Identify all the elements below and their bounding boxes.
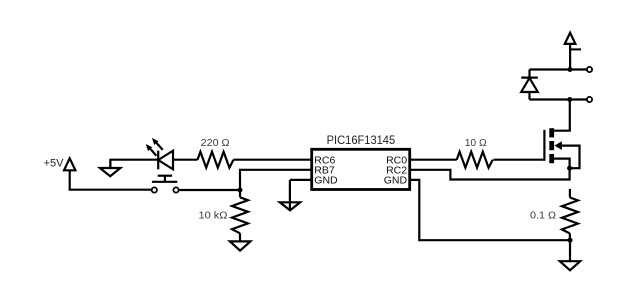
junction row1 bbox=[568, 67, 573, 72]
svg-text:+5V: +5V bbox=[44, 158, 65, 170]
ground below 10k bbox=[230, 241, 251, 250]
wire LED to R1 bbox=[173, 159, 198, 161]
ground below R4 bbox=[560, 240, 580, 270]
terminal row1 bbox=[587, 67, 592, 72]
svg-text:0.1 Ω: 0.1 Ω bbox=[530, 210, 556, 222]
resistor R1 220 Ohm bbox=[198, 137, 234, 168]
power +5V symbol P1 bbox=[44, 158, 76, 171]
resistor R2 10 kOhm bbox=[199, 190, 249, 241]
svg-text:10 Ω: 10 Ω bbox=[465, 137, 487, 149]
wire ground to LED bbox=[110, 160, 158, 168]
source lead bbox=[554, 159, 570, 169]
resistor R3 10 Ohm bbox=[457, 137, 493, 168]
body arrow bbox=[554, 141, 562, 150]
wire RC0 to R3 bbox=[410, 159, 457, 161]
ground below left GND pin (arrow style) bbox=[280, 180, 300, 210]
wire pushbutton to node bbox=[179, 189, 240, 191]
svg-text:GND: GND bbox=[384, 175, 408, 187]
drain lead bbox=[554, 100, 570, 131]
wire R1 to RC6 bbox=[234, 159, 312, 161]
LED D1 bbox=[146, 138, 173, 169]
LED arrow 2 bbox=[155, 141, 163, 150]
svg-text:PIC16F13145: PIC16F13145 bbox=[327, 133, 396, 147]
terminal row2 bbox=[587, 97, 592, 102]
junction node at button/RB7/10k bbox=[238, 188, 243, 193]
diode D2 flyback bbox=[521, 70, 538, 100]
junction below R4 bbox=[568, 238, 573, 243]
wire row 1 bbox=[530, 68, 587, 70]
LED arrow 1 bbox=[149, 147, 157, 155]
channel bars bbox=[549, 128, 554, 137]
wire node up to RB7 row bbox=[240, 170, 312, 190]
wire R3 to gate bbox=[493, 159, 544, 161]
svg-text:10 kΩ: 10 kΩ bbox=[199, 210, 228, 222]
power symbol top right P2 bbox=[565, 33, 581, 70]
ground at LED cathode bbox=[100, 160, 121, 177]
wire +5V to pushbutton bbox=[70, 170, 152, 189]
wire R4 bottom to right GND pin bbox=[410, 180, 570, 240]
wire source down and left to RC2 bbox=[410, 168, 570, 179]
resistor R4 0.1 Ohm bbox=[530, 189, 578, 240]
gate line bbox=[543, 130, 545, 161]
svg-text:220 Ω: 220 Ω bbox=[201, 137, 230, 149]
IC U1 PIC16F13145 bbox=[312, 133, 410, 189]
pushbutton S1 bbox=[152, 176, 179, 193]
junction row2 bbox=[567, 97, 572, 102]
svg-text:GND: GND bbox=[314, 175, 338, 187]
transistor Q1 n-MOSFET bbox=[544, 100, 579, 171]
source junction bbox=[567, 166, 572, 171]
wire left GND pin bbox=[290, 179, 312, 181]
wire drain row 2 bbox=[530, 98, 587, 100]
